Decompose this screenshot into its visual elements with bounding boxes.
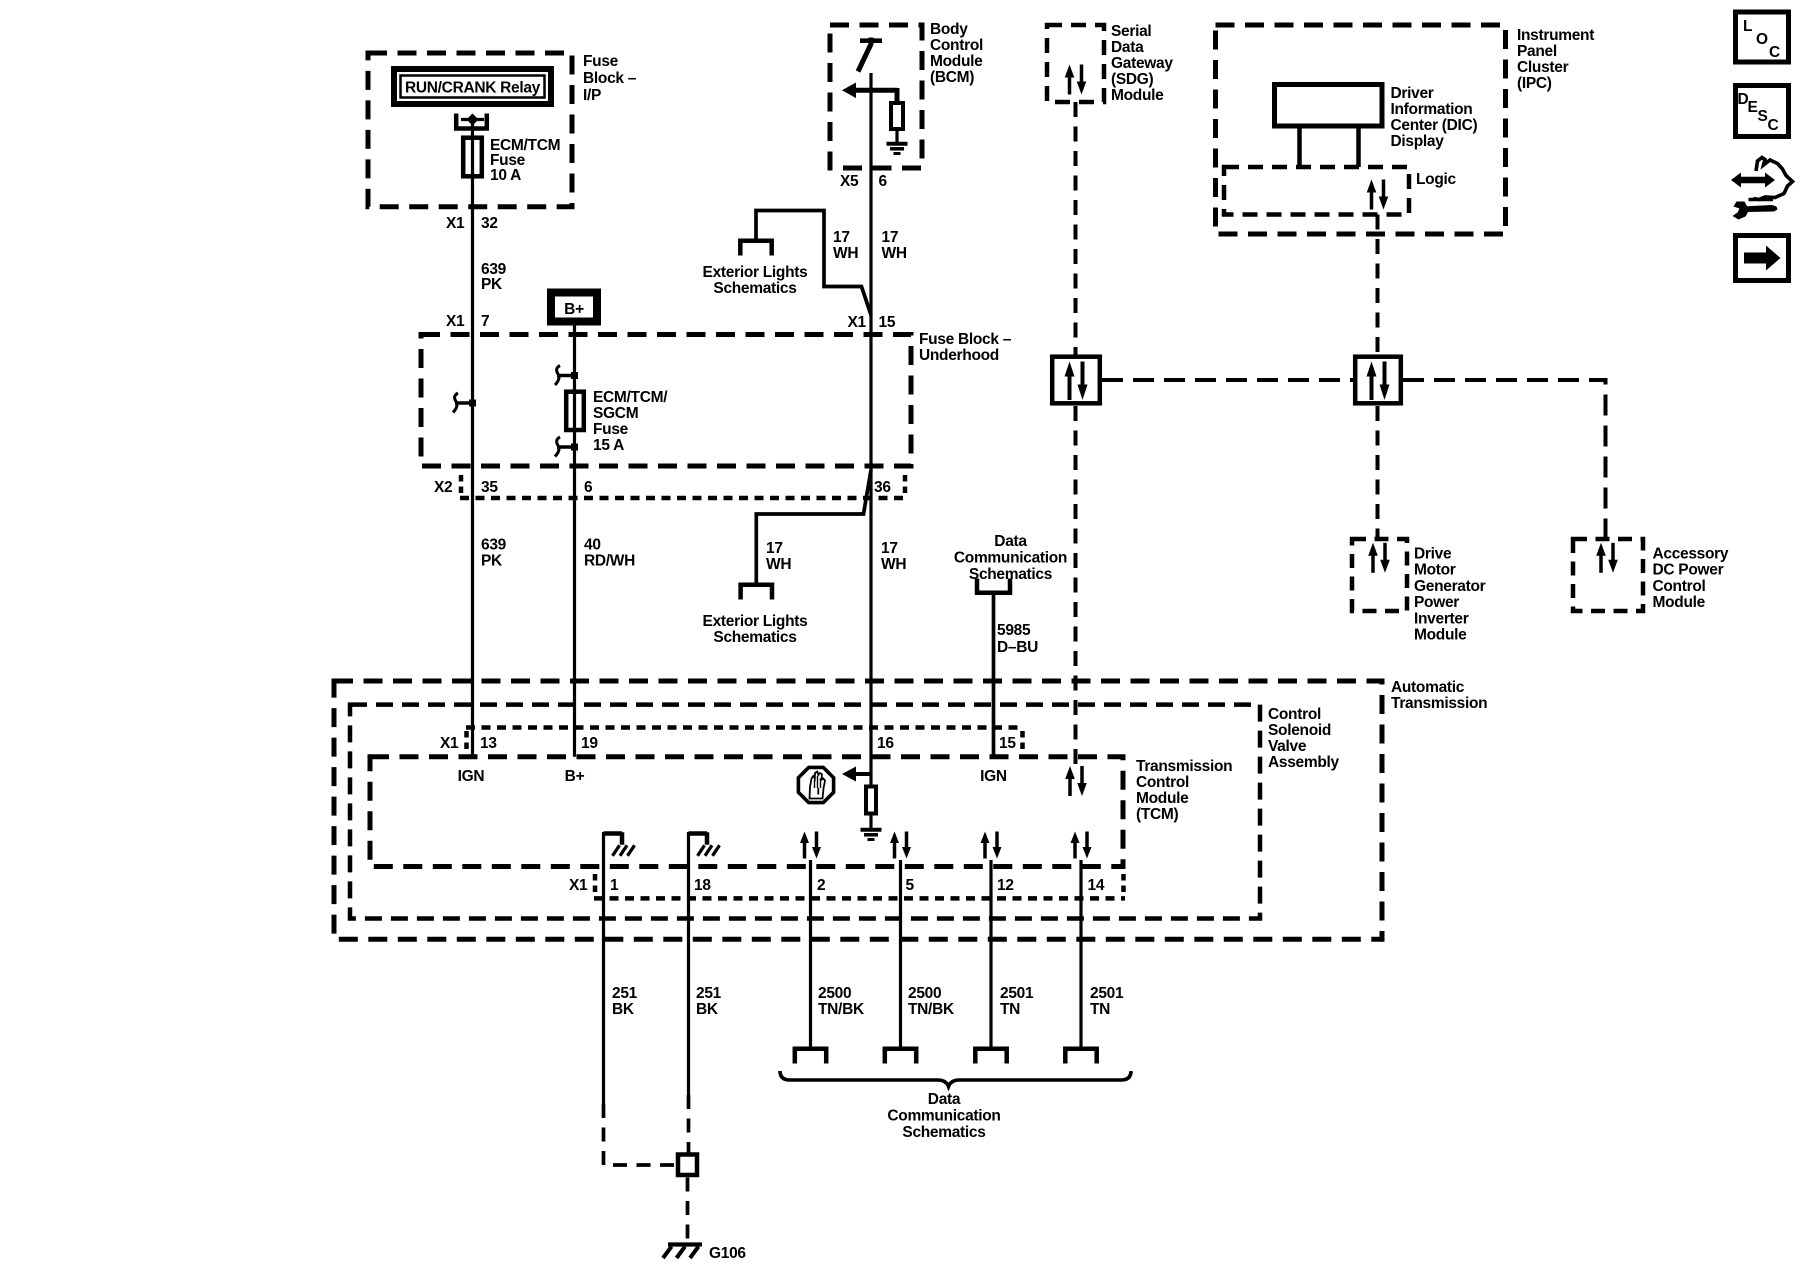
fuse block underhood box xyxy=(421,335,911,467)
terminal hook below fuse xyxy=(555,437,575,457)
svg-text:18: 18 xyxy=(694,877,711,894)
control solenoid valve assembly box xyxy=(350,705,1260,919)
connector X1 dotted line bottom of TCM xyxy=(594,896,1125,901)
svg-text:IGN: IGN xyxy=(980,768,1007,785)
ground G106 xyxy=(668,1242,702,1246)
svg-text:13: 13 xyxy=(480,735,497,752)
svg-text:WH: WH xyxy=(881,556,906,573)
dashed wire pin18 to splice xyxy=(687,1095,691,1153)
svg-text:35: 35 xyxy=(481,479,498,496)
svg-text:B+: B+ xyxy=(565,768,585,785)
connector X2 dotted line xyxy=(460,496,906,501)
svg-text:O: O xyxy=(1756,31,1768,48)
icon arrow right xyxy=(1736,236,1789,281)
svg-text:Motor: Motor xyxy=(1414,562,1456,579)
svg-text:Information: Information xyxy=(1391,101,1473,118)
svg-text:251: 251 xyxy=(612,985,638,1002)
data link box left xyxy=(1052,357,1100,404)
icon DESC xyxy=(1736,86,1789,137)
off page connectors data comm bottom xyxy=(795,1049,826,1064)
svg-text:7: 7 xyxy=(481,313,489,330)
svg-text:X1: X1 xyxy=(440,735,459,752)
svg-text:Display: Display xyxy=(1391,133,1445,150)
TCM box xyxy=(370,757,1123,867)
svg-text:2500: 2500 xyxy=(818,985,851,1002)
icon LOC xyxy=(1736,12,1789,62)
svg-text:Block –: Block – xyxy=(583,70,637,87)
svg-text:Data: Data xyxy=(1111,39,1144,56)
svg-text:C: C xyxy=(1768,117,1779,134)
svg-text:17: 17 xyxy=(766,540,783,557)
svg-text:251: 251 xyxy=(696,985,722,1002)
svg-text:X1: X1 xyxy=(569,877,588,894)
wire branch to exterior lights lower xyxy=(756,470,871,585)
svg-text:Schematics: Schematics xyxy=(713,280,796,297)
svg-text:(BCM): (BCM) xyxy=(930,69,974,86)
svg-text:D–BU: D–BU xyxy=(997,639,1038,656)
automatic transmission box xyxy=(334,681,1382,939)
svg-text:BK: BK xyxy=(612,1001,635,1018)
svg-text:Data: Data xyxy=(994,533,1027,550)
resistor in BCM xyxy=(891,103,903,129)
svg-text:Schematics: Schematics xyxy=(902,1124,985,1141)
svg-text:WH: WH xyxy=(766,556,791,573)
arrow into wire 16 xyxy=(842,767,856,782)
svg-text:15 A: 15 A xyxy=(593,437,624,454)
svg-text:Control: Control xyxy=(930,37,983,54)
svg-text:Solenoid: Solenoid xyxy=(1268,722,1331,739)
svg-text:L: L xyxy=(1743,18,1752,35)
svg-text:15: 15 xyxy=(879,314,896,331)
svg-text:14: 14 xyxy=(1088,877,1105,894)
svg-text:Module: Module xyxy=(1136,790,1189,807)
dashed wire logic down xyxy=(1376,215,1380,355)
wire resistor to ground xyxy=(895,129,898,144)
terminal hook on 639 wire xyxy=(453,393,473,413)
wire 5985 D-BU xyxy=(992,593,996,757)
DIC legs xyxy=(1297,129,1302,168)
svg-text:Communication: Communication xyxy=(887,1108,1000,1125)
arrows at SDG line end in TCM xyxy=(1065,766,1087,796)
svg-text:32: 32 xyxy=(481,215,498,232)
data link box right xyxy=(1355,357,1401,404)
svg-text:PK: PK xyxy=(481,553,503,570)
svg-text:(TCM): (TCM) xyxy=(1136,806,1179,823)
svg-text:12: 12 xyxy=(997,877,1014,894)
svg-text:Power: Power xyxy=(1414,594,1459,611)
svg-text:I/P: I/P xyxy=(583,87,601,104)
svg-text:Module: Module xyxy=(930,53,983,70)
svg-text:DC Power: DC Power xyxy=(1653,562,1724,579)
svg-text:2501: 2501 xyxy=(1090,985,1124,1002)
svg-text:Driver: Driver xyxy=(1391,85,1434,102)
svg-text:639: 639 xyxy=(481,537,507,554)
svg-text:B+: B+ xyxy=(564,301,584,318)
off page connector from data comm xyxy=(977,579,1010,593)
svg-text:SGCM: SGCM xyxy=(593,405,638,422)
wire 639 PK from fuse to TCM xyxy=(471,120,474,757)
svg-text:Control: Control xyxy=(1136,774,1189,791)
stop hand octagon xyxy=(798,767,833,802)
svg-text:Panel: Panel xyxy=(1517,43,1557,60)
svg-text:S: S xyxy=(1758,108,1768,125)
svg-text:2501: 2501 xyxy=(1000,985,1034,1002)
svg-text:G106: G106 xyxy=(709,1245,746,1262)
svg-text:E: E xyxy=(1748,99,1758,116)
svg-text:Control: Control xyxy=(1653,578,1706,595)
body control module box xyxy=(830,25,922,168)
svg-text:5985: 5985 xyxy=(997,622,1031,639)
main wire from switch down xyxy=(869,73,872,787)
B+ power symbol xyxy=(551,293,597,322)
chassis ground pin 1 xyxy=(604,832,635,856)
svg-text:(IPC): (IPC) xyxy=(1517,75,1552,92)
svg-text:2: 2 xyxy=(817,877,825,894)
arrows in logic xyxy=(1367,180,1389,210)
drive motor generator power inverter module box xyxy=(1352,539,1407,611)
svg-text:Exterior Lights: Exterior Lights xyxy=(703,613,808,630)
svg-text:10 A: 10 A xyxy=(490,167,521,184)
svg-text:Center (DIC): Center (DIC) xyxy=(1391,117,1478,134)
dashed wire splice to ground xyxy=(686,1178,690,1241)
serial data gateway box xyxy=(1047,25,1104,102)
svg-text:Control: Control xyxy=(1268,706,1321,723)
DIC display box xyxy=(1275,85,1383,127)
svg-text:Fuse Block –: Fuse Block – xyxy=(919,331,1012,348)
svg-text:X1: X1 xyxy=(446,215,465,232)
dashed wire left box down to TCM xyxy=(1074,406,1078,766)
switch in BCM xyxy=(860,38,882,43)
svg-text:Module: Module xyxy=(1653,594,1706,611)
icon hand with arrow and wrench xyxy=(1731,173,1775,188)
arrows pin 12 xyxy=(981,832,1002,859)
arrows pin 5 xyxy=(890,832,911,859)
arrows pin 2 xyxy=(800,832,821,859)
svg-text:1: 1 xyxy=(610,877,619,894)
terminal hook above fuse xyxy=(555,366,575,386)
svg-text:Accessory: Accessory xyxy=(1653,546,1729,563)
relay K1 RUN/CRANK Relay xyxy=(394,69,551,104)
svg-text:6: 6 xyxy=(584,479,593,496)
svg-text:PK: PK xyxy=(481,276,503,293)
svg-text:X1: X1 xyxy=(446,313,465,330)
svg-text:Drive: Drive xyxy=(1414,546,1452,563)
svg-text:Body: Body xyxy=(930,21,968,38)
connector X1 dotted line top of TCM xyxy=(466,725,1023,730)
svg-text:Logic: Logic xyxy=(1416,171,1457,188)
svg-text:X5: X5 xyxy=(840,173,859,190)
svg-text:Underhood: Underhood xyxy=(919,347,999,364)
resistor in TCM xyxy=(866,787,876,814)
svg-text:TN/BK: TN/BK xyxy=(908,1001,955,1018)
dashed wire between boxes xyxy=(1102,378,1353,382)
svg-text:Fuse: Fuse xyxy=(593,421,629,438)
svg-text:TN: TN xyxy=(1000,1001,1020,1018)
svg-text:Inverter: Inverter xyxy=(1414,610,1469,627)
svg-text:Valve: Valve xyxy=(1268,738,1307,755)
svg-text:ECM/TCM/: ECM/TCM/ xyxy=(593,389,668,406)
svg-text:Automatic: Automatic xyxy=(1391,679,1465,696)
svg-text:Gateway: Gateway xyxy=(1111,55,1173,72)
svg-text:Transmission: Transmission xyxy=(1391,695,1487,712)
svg-text:RD/WH: RD/WH xyxy=(584,553,635,570)
splice xyxy=(678,1155,697,1176)
svg-text:19: 19 xyxy=(581,735,598,752)
svg-text:Data: Data xyxy=(928,1091,961,1108)
svg-text:36: 36 xyxy=(874,479,891,496)
svg-text:Instrument: Instrument xyxy=(1517,27,1594,44)
wire branch to exterior lights xyxy=(756,211,871,316)
svg-text:Generator: Generator xyxy=(1414,578,1486,595)
svg-text:RUN/CRANK Relay: RUN/CRANK Relay xyxy=(405,80,541,97)
svg-text:WH: WH xyxy=(833,245,858,262)
wire resistor to ground xyxy=(869,813,872,829)
svg-text:X1: X1 xyxy=(848,314,867,331)
svg-text:Schematics: Schematics xyxy=(713,629,796,646)
svg-text:6: 6 xyxy=(879,173,888,190)
svg-text:Exterior Lights: Exterior Lights xyxy=(703,264,808,281)
svg-text:15: 15 xyxy=(999,735,1016,752)
accessory dc power control module box xyxy=(1573,539,1643,611)
svg-text:17: 17 xyxy=(882,229,899,246)
svg-text:IGN: IGN xyxy=(458,768,485,785)
fuse block I/P box xyxy=(368,53,572,207)
svg-text:Module: Module xyxy=(1414,627,1467,644)
logic box xyxy=(1224,167,1409,215)
svg-text:WH: WH xyxy=(882,245,907,262)
ground in TCM xyxy=(861,830,882,840)
dashed wire SDG down xyxy=(1074,102,1078,355)
svg-text:Cluster: Cluster xyxy=(1517,59,1569,76)
svg-text:(SDG): (SDG) xyxy=(1111,71,1154,88)
arrows pin 14 xyxy=(1071,832,1092,859)
svg-text:40: 40 xyxy=(584,537,601,554)
svg-text:TN: TN xyxy=(1090,1001,1110,1018)
svg-text:17: 17 xyxy=(833,229,850,246)
svg-text:Fuse: Fuse xyxy=(583,53,619,70)
svg-text:5: 5 xyxy=(906,877,915,894)
dashed wire to accessory module xyxy=(1403,380,1606,539)
chassis ground pin 18 xyxy=(689,832,720,856)
svg-text:C: C xyxy=(1769,44,1780,61)
fuse ECM/TCM/SGCM 15A xyxy=(566,392,584,430)
svg-text:16: 16 xyxy=(877,735,894,752)
svg-text:2500: 2500 xyxy=(908,985,941,1002)
svg-text:17: 17 xyxy=(881,540,898,557)
svg-text:Assembly: Assembly xyxy=(1268,754,1340,771)
ground in BCM xyxy=(887,144,908,154)
arrow branch in BCM xyxy=(842,83,856,99)
fuse ECM/TCM 10A xyxy=(463,138,482,177)
off page connector exterior lights upper xyxy=(740,241,771,256)
svg-text:BK: BK xyxy=(696,1001,719,1018)
svg-text:Transmission: Transmission xyxy=(1136,758,1232,775)
svg-text:TN/BK: TN/BK xyxy=(818,1001,865,1018)
instrument panel cluster box xyxy=(1216,25,1506,234)
svg-text:Communication: Communication xyxy=(954,550,1067,567)
off page connector exterior lights lower xyxy=(741,585,772,600)
curly brace xyxy=(780,1071,1131,1087)
svg-text:Module: Module xyxy=(1111,87,1164,104)
arrows in SDG xyxy=(1065,65,1087,95)
svg-text:X2: X2 xyxy=(434,479,452,496)
dashed wire right box down xyxy=(1376,406,1380,539)
hand glyph xyxy=(810,772,826,799)
relay output terminal cup xyxy=(456,114,487,129)
wire B+ down xyxy=(573,326,576,757)
dashed wire pin1 to splice xyxy=(604,1104,675,1165)
svg-text:Serial: Serial xyxy=(1111,23,1151,40)
